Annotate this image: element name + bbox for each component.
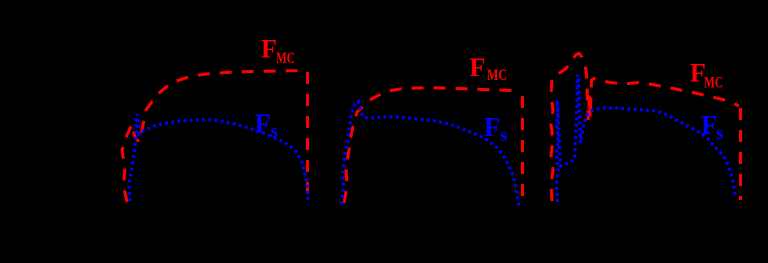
panel 1 red right drop bbox=[306, 72, 309, 197]
panel 1 red curve F_MC rise and plateau bbox=[122, 71, 304, 203]
svg-text:MC: MC bbox=[276, 50, 295, 67]
svg-text:MC: MC bbox=[704, 75, 723, 92]
panel 2 red right drop bbox=[521, 96, 524, 205]
svg-text:F: F bbox=[261, 35, 277, 64]
svg-text:F: F bbox=[255, 109, 272, 139]
panel 3 red curve F_MC with initial spike bbox=[551, 54, 739, 202]
panel 3 red right drop bbox=[739, 108, 742, 200]
svg-text:s: s bbox=[271, 121, 278, 142]
svg-text:F: F bbox=[484, 112, 501, 142]
panel 2 blue curve F_s bbox=[342, 102, 520, 207]
svg-text:s: s bbox=[716, 123, 723, 144]
panel 1 blue curve F_s bbox=[129, 114, 308, 201]
panel 3 blue curve F_s with initial spikes bbox=[557, 75, 736, 203]
svg-text:s: s bbox=[500, 125, 507, 146]
svg-text:F: F bbox=[470, 53, 486, 82]
svg-text:MC: MC bbox=[487, 67, 507, 84]
panel 2 red curve F_MC bbox=[344, 88, 521, 203]
